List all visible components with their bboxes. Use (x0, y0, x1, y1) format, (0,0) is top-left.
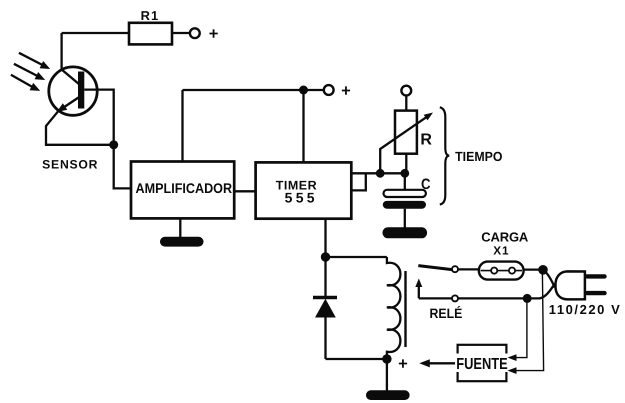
wire lamp to cord node (524, 268, 543, 270)
capacitor C top plate (384, 190, 426, 197)
wire timer bottom down (324, 219, 326, 257)
relay coil K1 (387, 257, 401, 359)
base wire to junction (84, 90, 113, 145)
timer U2 TIMER 555 (256, 162, 352, 218)
relay core bar (404, 271, 406, 347)
junction node sensor (109, 140, 118, 149)
thin wire lower node to fuente (508, 302, 527, 361)
node relay bottom (382, 354, 391, 363)
svg-text:SENSOR: SENSOR (42, 158, 97, 172)
relay actuation arrow (415, 279, 422, 299)
wire R to node (405, 154, 407, 174)
lamp circle left (491, 268, 497, 274)
svg-text:AMPLIFICADOR: AMPLIFICADOR (136, 180, 233, 196)
wire node to capacitor (404, 173, 406, 190)
terminal circle rail (324, 85, 334, 95)
contact circle lower (452, 295, 458, 301)
lower contact wire (419, 297, 527, 299)
wire terminal to R (405, 96, 407, 111)
wire capacitor to ground (404, 209, 406, 229)
svg-text:TIEMPO: TIEMPO (455, 149, 502, 164)
svg-text:+: + (398, 355, 408, 373)
svg-text:RELÉ: RELÉ (430, 305, 463, 321)
wire timer to RC rail (351, 172, 405, 174)
ground (amplifier) (160, 237, 204, 247)
svg-text:C: C (421, 176, 431, 193)
arrow fuente to relay plus (419, 359, 455, 367)
wire junction to amplifier input (114, 145, 131, 189)
light arrow 1 (19, 53, 50, 69)
amp ground wire (179, 218, 181, 238)
svg-text:+: + (209, 25, 219, 43)
contact circle upper (452, 266, 458, 272)
terminal circle R (401, 86, 411, 96)
+V rail (183, 89, 304, 91)
emitter wire to junction (46, 111, 114, 145)
plug body (556, 271, 585, 299)
wire contact to lamp (458, 268, 479, 270)
lamp circle right (509, 268, 515, 274)
light arrow 2 (14, 64, 45, 80)
power supply FUENTE box (458, 345, 507, 381)
switch blade (418, 266, 452, 270)
diode D1 (313, 298, 337, 318)
node wiper (376, 169, 385, 178)
node cord lower (523, 294, 532, 303)
svg-text:FUENTE: FUENTE (456, 356, 508, 373)
wire R1 to terminal (172, 32, 190, 34)
node on rail (299, 86, 308, 95)
wire amp to timer (234, 190, 255, 192)
resistor R1 (129, 23, 172, 45)
lamp X1 body (479, 262, 524, 280)
op-amp block U1 AMPLIFICADOR (131, 162, 234, 219)
node cord upper (538, 265, 548, 275)
node relay top (321, 252, 330, 261)
thin wire upper node to fuente (508, 273, 544, 375)
wire rail down to amplifier (181, 90, 183, 162)
brace TIEMPO (440, 107, 450, 204)
wire node to coil (326, 256, 387, 258)
cord upper to plug (543, 270, 555, 288)
svg-text:X1: X1 (493, 244, 509, 258)
timer pin stub loop (351, 173, 366, 190)
wire collector up to rail (60, 33, 62, 70)
svg-text:R: R (420, 131, 432, 148)
wire rail to terminal (304, 89, 324, 91)
ground (capacitor) (383, 227, 428, 238)
white gap for FUENTE text (453, 354, 511, 373)
wire node to diode (324, 257, 326, 297)
wire rail down to timer (302, 90, 304, 162)
svg-text:555: 555 (285, 190, 315, 206)
wire top rail to R1 (62, 32, 129, 34)
svg-text:110/220 V: 110/220 V (549, 302, 620, 317)
light arrow 3 (11, 75, 40, 91)
ground (relay) (366, 390, 410, 400)
wire to relay ground (386, 359, 388, 391)
potentiometer wiper arrow (380, 113, 433, 174)
lamp filament line (481, 270, 523, 272)
plug prong lower (585, 291, 607, 295)
svg-text:R1: R1 (141, 8, 159, 23)
svg-text:CARGA: CARGA (481, 230, 529, 245)
svg-text:+: + (341, 82, 351, 100)
phototransistor Q1 (SENSOR) (49, 67, 97, 115)
potentiometer R body (395, 111, 417, 154)
cord lower to plug (527, 284, 555, 299)
bottom wire diode to coil (326, 358, 387, 360)
terminal circle top (190, 28, 200, 38)
plug prong upper (585, 274, 607, 278)
wire diode down (324, 318, 326, 360)
capacitor C bottom plate (383, 201, 426, 209)
node RC (400, 169, 409, 178)
